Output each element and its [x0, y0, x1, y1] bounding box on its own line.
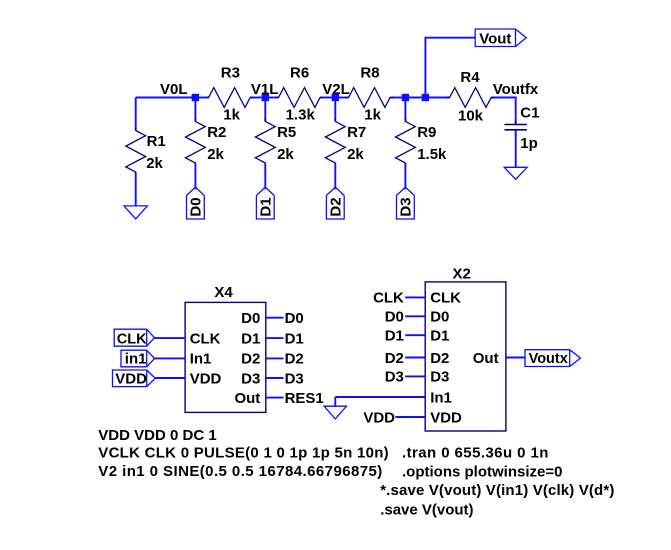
wire: R7 to port D2	[334, 163, 336, 189]
wire: X4 D2 stub	[266, 357, 284, 359]
svg-text:*.save V(vout) V(in1) V(clk) V: *.save V(vout) V(in1) V(clk) V(d*)	[380, 482, 614, 499]
port Vout	[475, 29, 526, 47]
resistor R7	[325, 118, 345, 166]
wire: X2 D1 stub	[405, 334, 425, 336]
svg-text:D2: D2	[430, 350, 449, 367]
svg-text:D3: D3	[398, 197, 415, 216]
resistor R5	[255, 118, 275, 166]
wire: node down to R9	[404, 98, 406, 122]
wire: X4 Out stub	[266, 397, 284, 399]
wire: X4 D0 stub	[266, 317, 284, 319]
wire: V1L to R6	[265, 97, 278, 99]
svg-text:D1: D1	[285, 330, 304, 347]
svg-text:1p: 1p	[520, 135, 538, 152]
junction node R8/R9	[402, 94, 409, 101]
wire: node to Vout tap node	[405, 97, 425, 99]
svg-text:D3: D3	[385, 369, 404, 386]
svg-text:X2: X2	[453, 266, 471, 283]
junction V0L	[192, 94, 199, 101]
wire: R9 to port D3	[404, 163, 406, 189]
svg-text:D3: D3	[241, 370, 260, 387]
wire: In1 net from ground corner to X2	[335, 396, 425, 398]
svg-text:R8: R8	[360, 65, 379, 82]
svg-text:VDD VDD 0 DC 1: VDD VDD 0 DC 1	[98, 427, 216, 444]
resistor R3	[206, 88, 254, 108]
subcircuit X4 box	[185, 302, 266, 412]
wire: R2 to port D0	[194, 163, 196, 189]
wire: R4 to Voutfx corner, down to C1	[491, 98, 516, 125]
svg-text:RES1: RES1	[285, 390, 324, 407]
resistor R8	[346, 88, 394, 108]
resistor R6	[276, 88, 324, 108]
svg-text:1.5k: 1.5k	[417, 146, 447, 163]
svg-text:VDD: VDD	[363, 409, 395, 426]
junction V2L	[332, 94, 339, 101]
resistor R1	[126, 128, 146, 176]
svg-text:VCLK CLK 0 PULSE(0 1 0 1p 1p 5: VCLK CLK 0 PULSE(0 1 0 1p 1p 5n 10n)	[98, 444, 389, 461]
port Voutx	[525, 350, 581, 367]
svg-text:C1: C1	[520, 105, 539, 122]
wire: R1 to ground	[135, 172, 137, 206]
wire: V1L down to R5	[264, 98, 266, 122]
svg-text:V2L: V2L	[322, 81, 350, 98]
ground on In1 net	[324, 406, 346, 419]
svg-text:CLK: CLK	[117, 331, 147, 347]
wire: R6 to V2L	[320, 97, 335, 99]
wire: R8 to node	[390, 97, 405, 99]
wire: X2 CLK stub	[405, 296, 425, 298]
wire: X2 D2 stub	[405, 357, 425, 359]
svg-text:VDD: VDD	[430, 409, 462, 426]
svg-text:In1: In1	[190, 351, 212, 368]
svg-text:In1: In1	[430, 389, 452, 406]
ground under R1	[124, 206, 147, 219]
wire: VDD port to X4	[155, 377, 185, 379]
junction V1L	[262, 94, 269, 101]
port D2	[326, 187, 344, 219]
svg-text:R6: R6	[290, 65, 309, 82]
svg-text:R1: R1	[147, 133, 166, 150]
svg-text:in1: in1	[125, 351, 147, 368]
wire: X4 D1 stub	[266, 337, 284, 339]
wire: X4 D3 stub	[266, 377, 284, 379]
resistor R9	[396, 118, 416, 166]
svg-text:2k: 2k	[207, 146, 224, 163]
svg-text:R7: R7	[347, 124, 366, 141]
svg-text:1k: 1k	[223, 106, 240, 123]
svg-text:.tran 0 655.36u 0 1n: .tran 0 655.36u 0 1n	[402, 444, 549, 461]
wire: left rail down to R1	[135, 98, 137, 131]
svg-text:D2: D2	[328, 197, 345, 216]
svg-text:D2: D2	[241, 351, 260, 368]
svg-text:D1: D1	[241, 330, 260, 347]
svg-text:D0: D0	[285, 310, 304, 327]
svg-text:V0L: V0L	[160, 81, 188, 98]
wire: Vout tap node to R4	[425, 97, 449, 99]
resistor R2	[186, 118, 206, 166]
svg-text:D0: D0	[430, 309, 449, 326]
junction Vout tap	[422, 94, 429, 101]
port VDD	[113, 370, 156, 387]
svg-text:D1: D1	[430, 328, 449, 345]
svg-text:D0: D0	[385, 309, 404, 326]
wire: X2 D0 stub	[405, 315, 425, 317]
svg-text:1k: 1k	[364, 106, 381, 123]
wire: X2 D3 stub	[405, 375, 425, 377]
wire: CLK port to X4	[155, 337, 186, 339]
resistor R4	[447, 88, 495, 108]
wire: V2L to R8	[335, 97, 348, 99]
svg-text:D0: D0	[241, 310, 260, 327]
port D0	[187, 187, 205, 219]
svg-text:Vout: Vout	[479, 31, 511, 48]
wire: R5 to port D1	[264, 163, 266, 189]
svg-text:Out: Out	[234, 390, 260, 407]
svg-text:2k: 2k	[347, 146, 364, 163]
svg-text:.options plotwinsize=0: .options plotwinsize=0	[402, 463, 562, 480]
wire: V0L down to R2	[194, 98, 196, 122]
svg-text:D1: D1	[385, 328, 404, 345]
svg-text:CLK: CLK	[373, 290, 404, 307]
wire: V0L to R3	[195, 97, 208, 99]
svg-text:D0: D0	[188, 197, 205, 216]
svg-text:VDD: VDD	[190, 370, 222, 387]
svg-text:CLK: CLK	[430, 290, 461, 307]
wire: in1 port to X4	[155, 357, 186, 359]
svg-text:D2: D2	[285, 351, 304, 368]
wire: Vout tap up and right to Vout port	[425, 38, 475, 98]
svg-text:D3: D3	[285, 370, 304, 387]
svg-text:R2: R2	[207, 124, 226, 141]
svg-text:2k: 2k	[277, 146, 294, 163]
svg-text:2k: 2k	[146, 155, 163, 172]
ground under C1	[504, 167, 527, 179]
svg-text:R5: R5	[277, 124, 296, 141]
svg-text:Voutfx: Voutfx	[493, 81, 539, 98]
svg-text:CLK: CLK	[190, 330, 221, 347]
svg-text:Voutx: Voutx	[529, 351, 568, 367]
svg-text:D3: D3	[430, 369, 449, 386]
svg-text:10k: 10k	[458, 108, 484, 125]
wire: top rail from left corner to V0L	[136, 97, 196, 99]
svg-text:1.3k: 1.3k	[286, 106, 316, 123]
wire: In1 ground stub	[334, 397, 336, 406]
svg-text:R3: R3	[221, 65, 240, 82]
capacitor C1	[505, 121, 527, 133]
svg-text:VDD: VDD	[115, 371, 147, 388]
wire: C1 to ground	[515, 130, 517, 168]
svg-text:X4: X4	[214, 284, 233, 301]
svg-text:.save V(vout): .save V(vout)	[380, 502, 473, 519]
subcircuit X2 box	[425, 282, 506, 431]
port in1	[121, 350, 155, 367]
svg-text:Out: Out	[473, 350, 499, 367]
port D3	[397, 187, 415, 219]
svg-text:D2: D2	[385, 350, 404, 367]
port D1	[256, 187, 274, 219]
svg-text:R4: R4	[460, 69, 480, 86]
wire: VDD stub to X2	[395, 416, 425, 418]
svg-text:V2 in1 0 SINE(0.5 0.5 16784.66: V2 in1 0 SINE(0.5 0.5 16784.66796875)	[98, 463, 382, 480]
wire: R3 to V1L	[250, 97, 265, 99]
svg-text:R9: R9	[417, 124, 436, 141]
wire: V2L down to R7	[334, 98, 336, 122]
svg-text:V1L: V1L	[251, 81, 279, 98]
port CLK	[114, 329, 154, 346]
svg-text:D1: D1	[258, 197, 275, 216]
wire: X2 Out to Voutx port	[506, 357, 525, 359]
